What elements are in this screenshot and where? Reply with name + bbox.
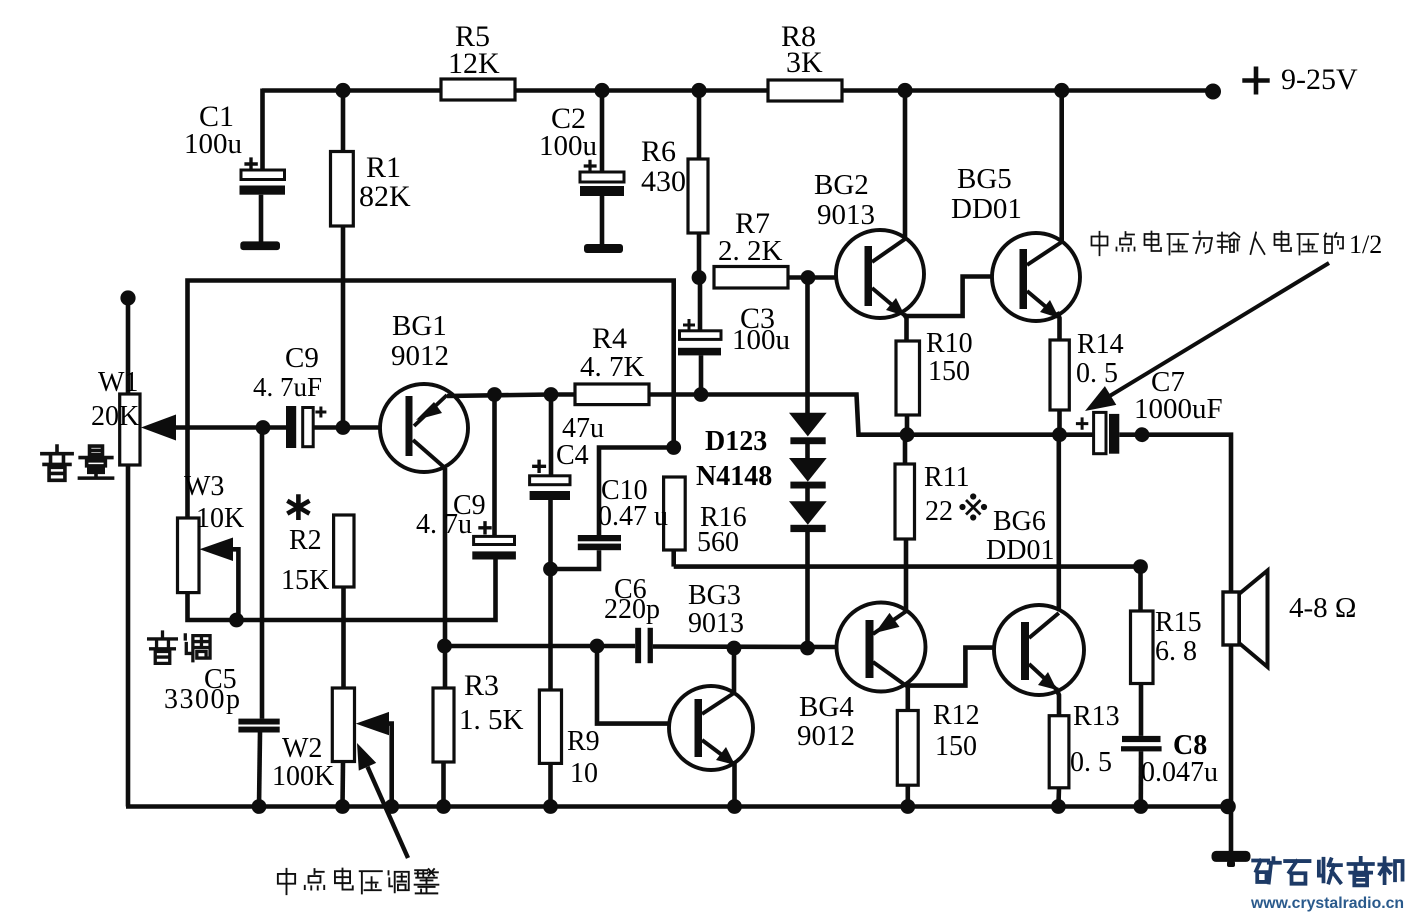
wire: BG1 collector down to R3	[443, 468, 448, 688]
wire: speaker bottom to ground rail and ground symbol	[1229, 645, 1234, 851]
wire: mid horizontal wire R3/C6/BG3	[444, 644, 635, 649]
wire: BG5 collector to rail	[1059, 91, 1064, 243]
svg-text:82K: 82K	[359, 180, 411, 213]
svg-text:10K: 10K	[196, 503, 244, 534]
wire: R11 bottom to BG4 emitter	[904, 539, 909, 611]
svg-text:C9: C9	[285, 342, 319, 374]
junction: rail/BG5 collector	[1054, 83, 1069, 98]
wire: C3 bottom lead	[699, 355, 704, 394]
ground symbol bottom right	[1212, 851, 1251, 867]
wire: R15 bottom to C8	[1139, 684, 1144, 736]
wire: C9b top lead from emitter wire	[492, 395, 497, 537]
wire: diode chain bottom to BG4 base node	[805, 528, 810, 648]
diode D3 1N4148	[789, 501, 827, 525]
resistor R4 4.7K	[575, 384, 649, 405]
junction: R6/R7 left	[692, 270, 707, 285]
svg-text:R12: R12	[933, 700, 980, 731]
capacitor C7 1000uF output electrolytic (horizontal)	[1076, 412, 1119, 453]
svg-text:R3: R3	[464, 669, 499, 702]
svg-text:220p: 220p	[604, 594, 660, 625]
junction: emitter wire/C9b	[487, 387, 502, 402]
junction: emitter wire/C4	[544, 387, 559, 402]
wire: C4 top lead	[549, 395, 554, 476]
ground symbol below C1	[240, 241, 280, 250]
wire: R10 bottom to mid node	[905, 415, 910, 435]
capacitor C9b 4.7u electrolytic	[472, 521, 516, 559]
svg-text:12K: 12K	[448, 47, 500, 80]
resistor R9 10	[539, 690, 561, 763]
junction: rail/C5	[252, 799, 267, 814]
wire: between diodes	[805, 440, 810, 460]
wire: R9 bottom lead	[548, 763, 553, 806]
junction: BG3 collector	[727, 641, 742, 656]
wire: R13 bottom lead	[1056, 788, 1061, 807]
capacitor C6 220p	[635, 628, 653, 663]
svg-text:R11: R11	[924, 462, 970, 493]
junction: rail/R13	[1051, 799, 1066, 814]
wire: C7 right plate to output node	[1119, 432, 1142, 437]
svg-text:0.047u: 0.047u	[1141, 757, 1218, 788]
svg-text:W2: W2	[282, 733, 322, 764]
capacitor C2 100u electrolytic	[580, 160, 624, 196]
resistor R2 15K	[334, 515, 354, 587]
svg-text:3K: 3K	[786, 46, 823, 79]
wire: R15 top from feedback node	[1138, 567, 1143, 611]
junction: mid node R14/BG6 collector	[1052, 427, 1067, 442]
potentiometer W3 10K body	[178, 518, 200, 593]
junction: rail/W2	[335, 799, 350, 814]
label 音量 (volume)	[42, 446, 72, 480]
svg-text:15K: 15K	[281, 565, 329, 596]
wire: diode chain column D123	[805, 278, 810, 415]
ground symbol below C2	[584, 244, 623, 253]
wire: C6 right to BG4 base node	[653, 644, 837, 649]
wire: R11 top lead	[903, 435, 908, 464]
transistor BG1 9012	[380, 384, 468, 472]
svg-text:W1: W1	[98, 367, 138, 398]
capacitor C5 3300p	[238, 719, 279, 733]
junction: BG1 base/R1/R2	[336, 420, 351, 435]
svg-text:100K: 100K	[272, 761, 334, 792]
wire: R7 right lead to BG2 base node	[788, 275, 836, 280]
wire: C4 bottom lead to R9 node	[548, 500, 553, 569]
svg-text:1/2: 1/2	[1349, 230, 1382, 259]
capacitor C1 100u electrolytic	[240, 157, 286, 194]
wire: R3 bottom lead	[441, 762, 446, 807]
wire: W1 bottom lead to ground rail	[126, 465, 131, 807]
svg-text:100u: 100u	[184, 128, 242, 160]
wire: C1 bottom lead to ground	[259, 195, 264, 243]
wire: C10 bottom to R9 node	[551, 550, 600, 569]
wire: C10 top jog to R16 top node	[599, 448, 674, 536]
label 音调 (tone)	[149, 632, 177, 663]
wire: W1 top terminal lead	[126, 298, 131, 394]
svg-text:3300p: 3300p	[164, 684, 242, 715]
wire: BG2 collector to rail	[903, 91, 908, 239]
svg-text:C4: C4	[556, 440, 589, 471]
junction: output node after C7	[1135, 427, 1150, 442]
svg-text:9-25V: 9-25V	[1281, 63, 1358, 96]
svg-text:6. 8: 6. 8	[1155, 636, 1197, 667]
junction: BG1 collector/R3/mid wire	[437, 639, 452, 654]
wire: R6 bottom lead to R7 node	[697, 233, 702, 278]
svg-text:BG5: BG5	[957, 163, 1012, 195]
svg-text:100u: 100u	[732, 324, 790, 356]
W1 wiper arrow	[141, 415, 176, 441]
transistor BG6 DD01	[994, 605, 1084, 695]
resistor R3 1.5K	[433, 688, 454, 762]
svg-text:560: 560	[697, 527, 739, 558]
resistor R1 82K	[331, 152, 354, 227]
transistor BG3 9013	[669, 686, 753, 770]
wire: BG3 base jog	[597, 646, 669, 724]
wire: +V top rail	[262, 88, 1213, 93]
junction: R7/BG2 base/diodes	[801, 270, 816, 285]
svg-text:W3: W3	[184, 471, 224, 502]
svg-text:0.47 u: 0.47 u	[598, 501, 668, 532]
junction: rail/R9	[543, 799, 558, 814]
junction: R16 top/C10	[666, 440, 681, 455]
junction: rail/R6	[691, 83, 706, 98]
resistor R5 12K	[441, 79, 515, 100]
wire: R16 bottom to output feedback wire	[671, 550, 676, 567]
diode D2 1N4148	[789, 458, 827, 482]
wire: C5 bottom lead	[259, 733, 260, 807]
wire: output feedback rail	[674, 564, 1141, 569]
wire: R1 top lead	[341, 91, 346, 152]
wire: C2 bottom lead to ground	[600, 196, 605, 246]
svg-text:BG3: BG3	[688, 580, 741, 611]
junction: rail/R3	[436, 799, 451, 814]
svg-text:1000uF: 1000uF	[1134, 393, 1223, 425]
resistor R14 0.5	[1050, 340, 1069, 410]
wire: R6 top lead	[697, 91, 702, 160]
svg-text:www.crystalradio.cn: www.crystalradio.cn	[1250, 895, 1404, 912]
svg-text:9012: 9012	[797, 720, 855, 752]
svg-text:R10: R10	[926, 328, 973, 359]
svg-text:0. 5: 0. 5	[1070, 747, 1112, 778]
junction: rail/R1	[335, 83, 350, 98]
svg-text:150: 150	[935, 731, 977, 762]
svg-text:10: 10	[570, 758, 598, 789]
W2 wiper arrow	[356, 712, 389, 735]
svg-text:100u: 100u	[539, 130, 597, 162]
resistor R8 3K	[768, 80, 842, 101]
wire: R14 bottom to mid node	[1057, 410, 1062, 435]
resistor R10 150	[896, 341, 920, 415]
svg-text:R14: R14	[1077, 329, 1124, 360]
svg-text:20K: 20K	[91, 401, 139, 432]
wire: emitter output wire BG1 with R4 to C3 node and jog down to mid node	[447, 395, 575, 397]
wire: C8 bottom lead	[1139, 751, 1144, 806]
transistor BG4 9012	[837, 603, 926, 692]
wire: output node to speaker	[1142, 435, 1231, 592]
wire: W2 bottom lead	[340, 762, 345, 807]
svg-text:R2: R2	[289, 525, 322, 556]
svg-text:9012: 9012	[391, 340, 449, 372]
wire: W2 wiper tail down to ground rail	[386, 724, 392, 807]
potentiometer W1 20K body	[120, 394, 140, 465]
junction: diode bottom/BG4 base	[800, 641, 815, 656]
junction: feedback node/R15	[1133, 559, 1148, 574]
junction: W1 top terminal	[120, 290, 135, 305]
junction: BG3 base wire	[590, 639, 605, 654]
wire: C1 top lead from rail	[260, 89, 265, 171]
junction: rail/C8	[1133, 799, 1148, 814]
svg-text:1. 5K: 1. 5K	[459, 704, 524, 736]
annotation 中点电压为输入电压的 (midpoint voltage is half of input)	[1092, 232, 1108, 256]
junction: mid node R10/R11	[900, 427, 915, 442]
svg-text:R13: R13	[1073, 701, 1120, 732]
speaker 4-8 ohm	[1223, 571, 1268, 668]
wire: BG6 emitter to R13	[1056, 688, 1059, 716]
svg-text:R15: R15	[1155, 607, 1202, 638]
junction: rail/BG2 collector	[897, 83, 912, 98]
svg-text:R9: R9	[567, 726, 600, 757]
wire: R12 bottom lead	[905, 785, 910, 806]
wire: R1 bottom lead to base node	[341, 226, 346, 428]
wire: BG3 collector	[732, 648, 737, 692]
capacitor C10 0.47u	[578, 535, 621, 550]
svg-text:9013: 9013	[688, 608, 744, 639]
wire: R9 column	[548, 569, 553, 690]
W3 wiper arrow	[200, 538, 234, 562]
wire: BG5 emitter to R14	[1057, 312, 1060, 340]
svg-text:22: 22	[925, 496, 953, 527]
svg-text:N4148: N4148	[696, 461, 772, 492]
svg-text:BG1: BG1	[392, 310, 447, 342]
resistor R15 6.8	[1131, 611, 1154, 684]
svg-text:2. 2K: 2. 2K	[718, 235, 783, 267]
junction: rail/BG3 emitter	[727, 799, 742, 814]
wire: feedback box top	[188, 281, 674, 519]
wire: R2 bottom to W2 top	[341, 587, 346, 688]
resistor R11 22	[895, 464, 915, 539]
svg-text:4. 7uF: 4. 7uF	[253, 372, 322, 402]
wire: BG6 collector up to output mid node	[1057, 435, 1062, 610]
annotation arrow: midpoint voltage note to C7	[1108, 263, 1329, 397]
annotation 中点电压调整 (midpoint voltage adjust)	[278, 869, 295, 894]
svg-text:0. 5: 0. 5	[1076, 358, 1118, 389]
junction: rail/W2 wiper	[384, 799, 399, 814]
asterisk mark near R2	[287, 494, 309, 520]
wire: W3 bottom lead and lower feedback wire	[188, 560, 496, 621]
wire: R7 node down to C3	[698, 278, 703, 331]
svg-text:DD01: DD01	[951, 193, 1022, 225]
svg-text:D123: D123	[705, 426, 767, 457]
svg-text:9013: 9013	[817, 199, 875, 231]
diode D1 1N4148	[789, 413, 827, 437]
junction: C4/C10/R9	[543, 562, 558, 577]
wire: ground bottom rail	[126, 804, 1229, 809]
potentiometer W2 100K body	[332, 688, 354, 762]
resistor R16 560	[664, 477, 686, 550]
svg-text:4. 7K: 4. 7K	[580, 351, 645, 383]
junction: input node/C5	[256, 420, 271, 435]
wire: BG2 emitter to BG5 base (interstage)	[904, 277, 992, 317]
resistor R7 2.2K	[714, 267, 788, 289]
junction: W3 wiper/feedback wire	[229, 613, 244, 628]
capacitor C3 100u electrolytic	[678, 319, 721, 355]
wire: C9 coupling cap input from W1 wiper	[172, 425, 286, 430]
wire: W3 wiper tail down	[230, 549, 238, 620]
svg-text:430: 430	[641, 165, 686, 198]
svg-text:4. 7u: 4. 7u	[416, 509, 472, 540]
svg-text:R6: R6	[641, 135, 676, 168]
wire: BG4 collector to BG6 base (interstage)	[907, 648, 995, 686]
wire: C9 to BG1 base	[313, 425, 381, 430]
wire: R4 right to C3 node and jog	[649, 395, 1094, 435]
capacitor C9 4.7uF input coupling (horizontal electrolytic)	[286, 406, 326, 448]
transistor BG5 DD01	[992, 233, 1080, 321]
wire: R12 top lead	[905, 686, 910, 711]
junction: rail/R12	[900, 799, 915, 814]
svg-text:DD01: DD01	[986, 535, 1054, 566]
junction: C3 bottom/R4 wire	[694, 387, 709, 402]
resistor R6 430	[688, 159, 708, 233]
wire: input node down to C5	[260, 428, 265, 719]
reference mark near R11	[961, 495, 986, 519]
svg-text:BG4: BG4	[799, 691, 854, 723]
transistor BG2 9013	[836, 230, 924, 318]
svg-text:BG2: BG2	[814, 169, 869, 201]
junction: rail/C2	[594, 83, 609, 98]
wire: BG3 emitter down	[732, 762, 737, 807]
capacitor C8 0.047u	[1121, 736, 1162, 752]
annotation arrow: midpoint adjust to W2 wiper	[368, 767, 409, 858]
junction: rail/speaker ground	[1220, 799, 1236, 815]
svg-text:BG6: BG6	[993, 506, 1046, 537]
wire: BG2 emitter to R10	[904, 314, 907, 341]
resistor R12 150	[897, 711, 918, 786]
power terminal +9-25V	[1205, 67, 1270, 100]
resistor R13 0.5	[1049, 716, 1069, 788]
capacitor C4 47u electrolytic	[530, 460, 570, 500]
svg-text:4-8 Ω: 4-8 Ω	[1289, 592, 1356, 624]
wire: C2 top lead	[600, 91, 605, 173]
wire: between diodes 2	[805, 485, 810, 503]
watermark 矿石收音机 crystalradio logo	[1253, 858, 1402, 886]
svg-text:150: 150	[928, 356, 970, 387]
